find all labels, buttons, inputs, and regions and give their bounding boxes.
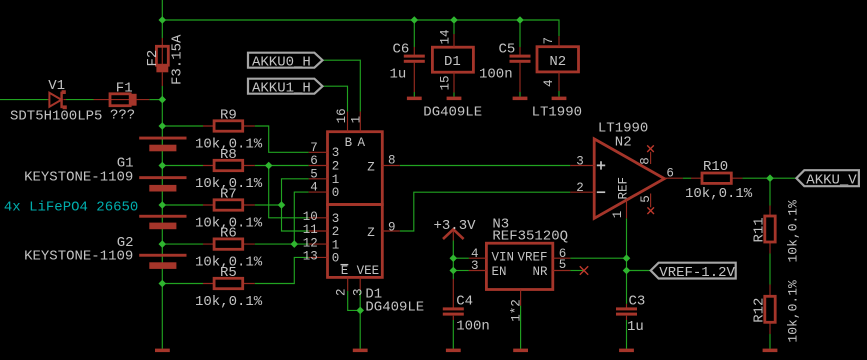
svg-text:7: 7 [542,37,556,45]
svg-text:D1: D1 [444,54,461,70]
N3 pin 3 stub [469,270,487,272]
svg-text:0: 0 [332,186,340,200]
svg-text:C5: C5 [499,42,516,58]
ground: battery bottom [155,349,170,353]
wire: battery tap to R9 [162,125,203,127]
net flag AKKU_V [796,170,859,186]
svg-text:2: 2 [576,181,584,195]
resistor R9 [203,121,255,131]
resistor R10 [691,173,742,183]
svg-text:A: A [358,136,366,150]
svg-text:100n: 100n [456,319,490,335]
mux pin 12 stub [309,243,328,245]
wire: R7 node to mux pin 11 [282,205,309,231]
wire: top rail drop to D1 pin 14 [453,20,455,34]
svg-text:10: 10 [303,210,318,224]
op-amp pin 6 stub [664,177,682,179]
mux pin 1 stub [359,112,361,132]
wire: AKKU0_H flag to mux pin 1 [323,60,361,111]
junction: R6 net branch [291,240,299,248]
ground: D1 pin 15 [447,97,462,101]
svg-text:100n: 100n [479,67,513,83]
svg-text:13: 13 [303,250,318,264]
resistor R6 [203,239,255,249]
wire: AKKU1_H flag to mux pin 16 [323,86,348,111]
fuse F1 [94,94,150,106]
wire: op-amp pin 6 to R10 [683,177,691,179]
wire: C3 to ground [626,320,628,349]
ground: mux VEE/E net [353,349,368,353]
op-amp + input symbol [597,161,605,169]
wire: battery tap to R6 [162,243,203,245]
mux pin 5 stub [309,178,328,180]
capacitor C4 [443,279,464,320]
svg-text:3: 3 [332,212,340,226]
mux pin 16 stub [347,112,349,132]
svg-text:NR: NR [532,265,548,279]
svg-text:5: 5 [559,258,567,272]
mux pin 2 stub [347,277,349,291]
svg-text:2: 2 [332,225,340,239]
wire: op-amp REF pin net vertical [626,218,628,304]
svg-text:R7: R7 [220,187,237,203]
capacitor C6 [404,47,425,92]
multiplexer D1 DG409LE section A box [328,132,383,205]
N3 pin 4 stub [469,257,487,259]
svg-text:12: 12 [303,236,318,250]
svg-text:C4: C4 [456,294,473,310]
svg-text:10k,0.1%: 10k,0.1% [786,200,801,263]
X mark N3 pin 5 [580,266,588,274]
wire: battery tap to R8 [162,165,203,167]
junction: AKKU_V node [766,174,774,182]
op-amp pin 2 stub [570,191,595,193]
wire: F1 to node at battery top [149,99,162,101]
IC N3 REF35120Q box [486,243,552,289]
op-amp N2 LT1990 triangle [594,139,664,218]
svg-text:EN: EN [492,265,507,279]
wire: R12 to ground [769,334,771,349]
wire: R5 to mux pin 13 [255,257,309,283]
wire: R8 to mux pin 6 [255,165,309,167]
svg-text:R6: R6 [220,226,237,242]
svg-text:16: 16 [335,108,349,123]
ground: C5 [513,97,528,101]
wire: N3 pin 2 to ground [520,306,522,349]
svg-text:REF35120Q: REF35120Q [492,229,568,245]
svg-text:N2: N2 [549,54,566,70]
svg-text:7: 7 [310,141,318,155]
wire: F2 bottom to battery top node [161,86,163,100]
op-amp - input symbol [597,191,605,193]
junction: battery tap R9 [159,122,167,130]
N3 pin 6 stub [553,257,571,259]
IC N2 box (LT1990 supply part) [537,36,579,91]
wire: top rail vertical to image edge [161,0,163,20]
svg-text:???: ??? [110,108,135,124]
svg-text:10k,0.1%: 10k,0.1% [195,294,263,310]
wire: REF net to VREF-1.2V flag [627,270,651,272]
svg-text:C6: C6 [393,42,410,58]
svg-text:0: 0 [332,252,340,266]
junction: +3.3V to N3 pin 3 node [450,267,458,275]
IC D1 driver box (DG409LE) [432,34,473,93]
wire: mux pin 3 to ground node [359,291,361,310]
svg-text:4: 4 [310,181,318,195]
resistor R11 [765,206,775,254]
svg-text:4x LiFePO4 26650: 4x LiFePO4 26650 [4,200,138,216]
resistor R12 [765,285,775,335]
svg-text:VREF-1.2V: VREF-1.2V [659,265,735,281]
svg-text:Z: Z [367,160,375,174]
multiplexer D1 DG409LE section B box [328,205,383,278]
svg-text:3: 3 [471,259,479,273]
wire: left battery input to V1 [0,99,48,101]
wire: top rail drop to C6 [413,20,415,47]
svg-text:E: E [341,264,349,278]
svg-text:V1: V1 [48,78,65,94]
svg-text:1: 1 [611,211,625,219]
ground: C3 [619,349,634,353]
wire: C6 to ground [413,92,415,97]
mux pin 4 stub [309,191,328,193]
resistor R5 [203,278,255,288]
wire: +3.3V supply down to N3 nodes [452,241,454,271]
svg-text:R11: R11 [752,217,768,242]
svg-text:5: 5 [639,195,653,203]
junction: top rail at F2 column [159,16,167,24]
resistor R8 [203,160,255,170]
mux pin 6 stub [309,165,328,167]
mux pin 13 stub [309,256,328,258]
N3 pin 2 stub [520,290,522,306]
svg-text:4: 4 [542,79,556,87]
junction: top rail at C5 [516,16,524,24]
battery G1 cell 1 [139,137,186,152]
mux pin 7 stub [309,151,328,153]
svg-text:R12: R12 [752,298,768,323]
wire: node down to C4 [452,271,454,280]
svg-text:+3.3V: +3.3V [434,218,477,234]
svg-text:9: 9 [388,221,396,235]
svg-text:11: 11 [303,223,318,237]
svg-text:8: 8 [388,154,396,168]
mux pin 9 stub [382,230,400,232]
wire: R11 to R12 [769,254,771,285]
wire: C4 to ground [452,320,454,349]
op-amp pin 5 stub (unconnected) [650,194,652,208]
wire: top rail horizontal to N2 pin 7 [162,20,559,36]
junction: R8 net branch [265,162,273,170]
wire: battery tap to R5 [162,283,203,285]
battery G2 cell 1 [139,215,186,229]
svg-text:10k,0.1%: 10k,0.1% [786,280,801,343]
wire: node to N3 pin 4 [453,257,469,259]
svg-text:5: 5 [310,167,318,181]
svg-text:DG409LE: DG409LE [423,105,482,121]
svg-text:VIN: VIN [492,251,515,265]
mux pin 3 stub [359,277,361,291]
supply +3.3V symbol [443,229,464,240]
mux pin 11 stub [309,230,328,232]
svg-text:AKKU1_H: AKKU1_H [252,80,311,96]
svg-text:1: 1 [350,116,364,124]
wire: D1 pin 15 to ground [453,93,455,97]
svg-text:15: 15 [439,75,453,90]
net flag AKKU1_H [248,79,323,94]
svg-text:N2: N2 [615,134,632,150]
svg-text:F1: F1 [116,81,133,97]
op-amp pin 3 stub [570,165,595,167]
wire: R8 node to mux pin 10 [269,166,309,218]
ground: C4 [446,349,461,353]
op-amp REF pin 1 stub [626,199,628,218]
svg-text:R5: R5 [220,265,237,281]
wire: N3 pin 6 to REF net [570,257,626,259]
wire: mux pin 2 to ground node [348,291,361,310]
svg-text:R9: R9 [220,108,237,124]
ground: C6 [407,97,422,101]
svg-text:C3: C3 [629,294,646,310]
wire: C5 to ground [519,92,521,97]
mux pin 10 stub [309,217,328,219]
svg-text:KEYSTONE-1109: KEYSTONE-1109 [24,249,133,265]
net flag AKKU0_H [248,53,323,68]
wire: top rail node down to F2 [161,20,163,38]
wire: R9 to mux pin 7 [255,126,309,152]
wire: top rail drop to C5 [519,20,521,47]
svg-text:6: 6 [310,154,318,168]
wire: node to N3 pin 3 [453,270,469,272]
junction: battery top node [159,96,167,104]
svg-text:3: 3 [352,288,366,296]
svg-text:Z: Z [367,226,375,240]
wire: mux Z pin 9 to op-amp pin 2 [400,192,571,231]
svg-text:AKKU0_H: AKKU0_H [252,54,311,70]
junction: top rail at D1 pin 14 [450,16,458,24]
svg-text:VREF: VREF [517,251,547,265]
svg-text:1: 1 [332,238,340,252]
svg-text:3: 3 [332,146,340,160]
junction: top rail at C6 [411,16,419,24]
wire: R6 node to mux pin 4 [294,192,308,244]
svg-text:VEE: VEE [357,264,380,278]
op-amp pin 8 stub (unconnected) [650,152,652,164]
N3 pin 5 stub (unconnected) [553,270,571,272]
svg-text:1u: 1u [627,319,644,335]
fuse F2 [156,38,168,86]
ground: N3 pin 2 [513,349,528,353]
junction: REF net at N3 pin 6 [623,254,631,262]
svg-text:3: 3 [576,154,584,168]
svg-text:F2: F2 [145,50,161,67]
svg-text:AKKU_V: AKKU_V [806,172,857,188]
wire: mux Z pin 8 to op-amp pin 3 [400,165,571,167]
mux pin 8 stub [382,165,400,167]
junction: R7 net branch [278,201,286,209]
net flag VREF-1.2V [651,263,736,279]
X mark pin 5 [647,207,654,214]
svg-text:R10: R10 [703,159,728,175]
wire: R7 node to mux pin 5 [282,179,309,205]
capacitor C5 [510,47,531,92]
svg-text:8: 8 [639,157,653,165]
svg-text:2: 2 [335,288,349,296]
wire: R10 to AKKU_V flag [742,177,796,179]
wire: mux ground node down [359,310,361,348]
wire: AKKU_V node down to R11 [769,178,771,205]
svg-text:6: 6 [666,167,674,181]
svg-text:B: B [345,136,353,150]
wire: battery tap to R7 [162,204,203,206]
wire: R7 to node [255,204,282,206]
svg-text:10k,0.1%: 10k,0.1% [685,186,753,202]
junction: battery tap R6 [159,240,167,248]
battery G2 cell 2 [139,254,186,269]
svg-text:KEYSTONE-1109: KEYSTONE-1109 [24,169,133,185]
overline of E [341,264,349,266]
battery G1 cell 2 [139,176,186,191]
ground: R12 bottom [763,349,778,353]
junction: battery tap R8 [159,162,167,170]
svg-text:14: 14 [439,29,453,44]
junction: battery tap R5 [159,280,167,288]
svg-text:F3.15A: F3.15A [169,34,185,85]
wire: V1 cathode to F1 [66,99,94,101]
svg-text:1: 1 [332,173,340,187]
svg-text:2: 2 [332,160,340,174]
svg-text:1*2: 1*2 [510,299,524,322]
svg-text:SDT5H100LP5: SDT5H100LP5 [10,109,102,125]
svg-text:R8: R8 [220,147,237,163]
junction: battery tap R7 [159,201,167,209]
svg-text:LT1990: LT1990 [532,105,582,121]
svg-text:1u: 1u [390,67,407,83]
ground: N2 pin 4 [552,97,567,101]
junction: +3.3V to N3 pin 4 node [450,254,458,262]
svg-text:REF: REF [616,177,630,200]
X mark pin 8 [647,145,654,152]
junction: REF net at VREF flag [623,267,631,275]
svg-text:DG409LE: DG409LE [365,300,424,316]
wire: battery chain vertical [161,100,163,349]
diode V1 SDT5H100LP5 [48,90,67,109]
wire: R6 to mux pin 12 [255,243,309,245]
resistor R7 [203,200,255,210]
wire: N2 pin 4 to ground [558,91,560,97]
junction: mux ground node [356,307,364,315]
capacitor C3 [616,304,637,320]
